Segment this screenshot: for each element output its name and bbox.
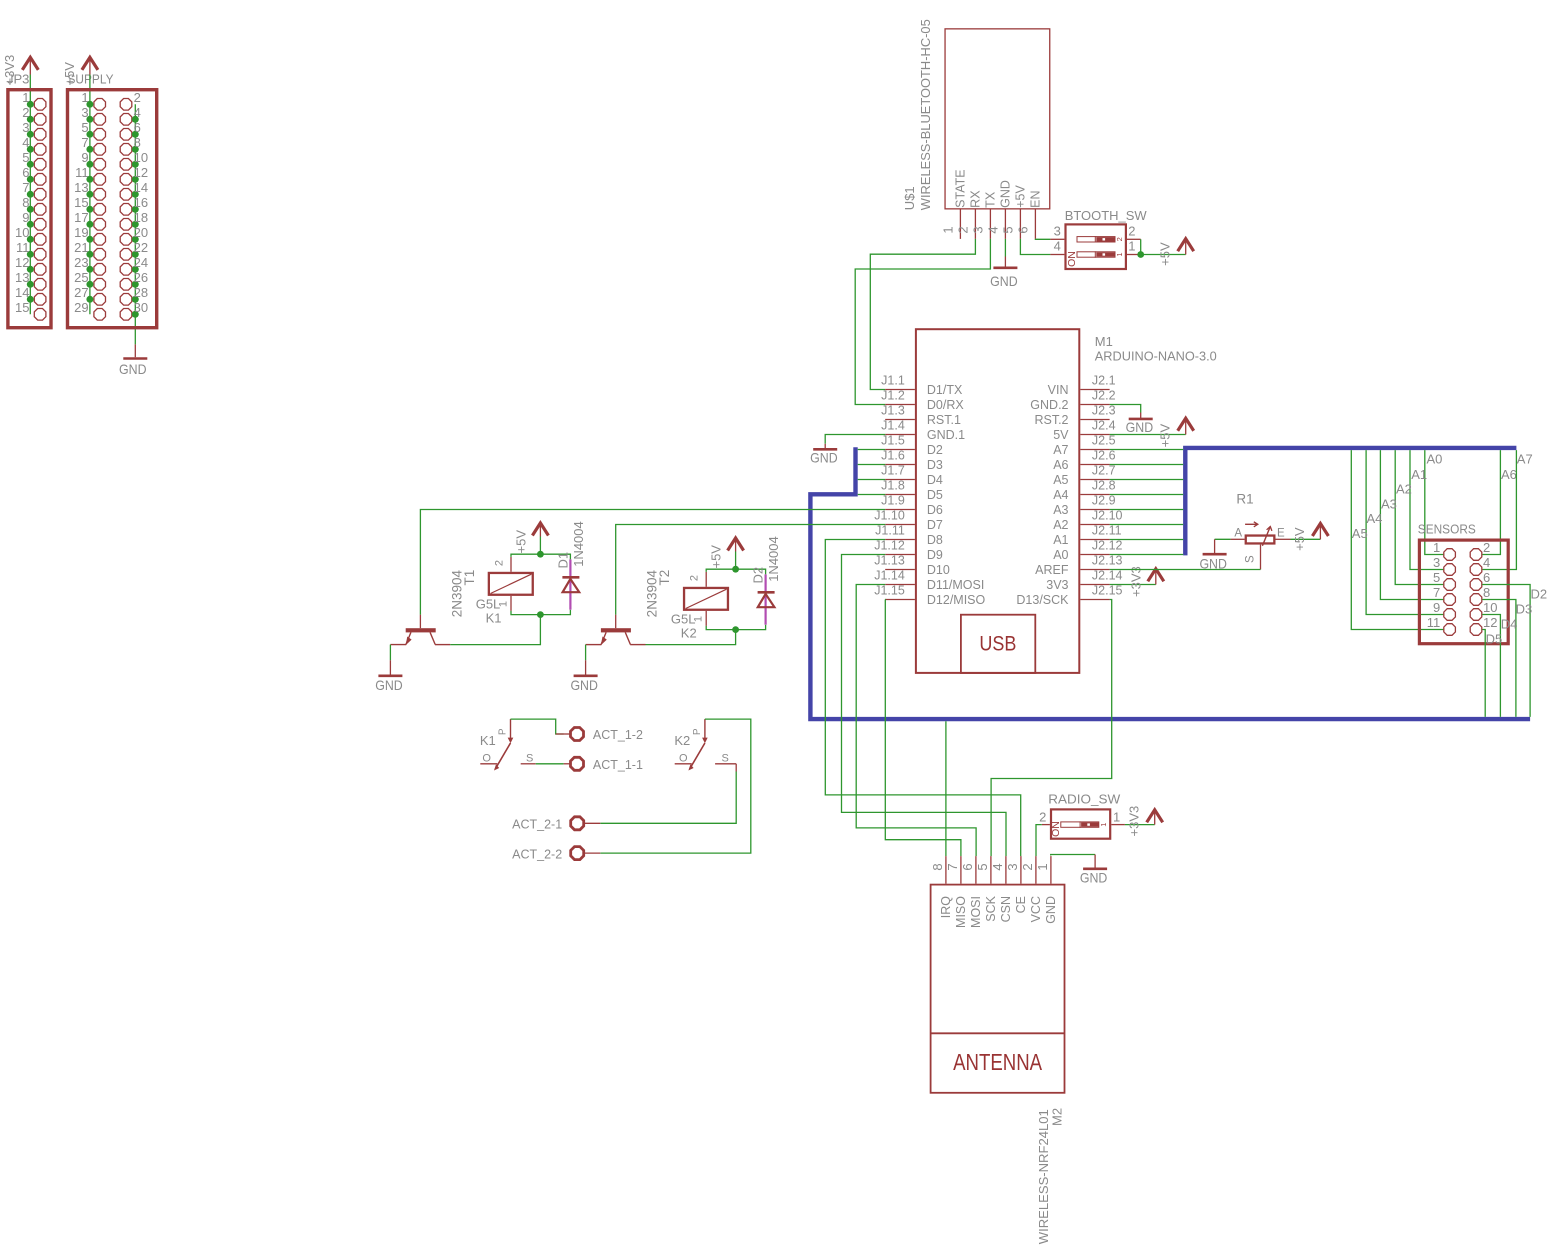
svg-text:K1: K1	[486, 610, 502, 625]
wire net A2: M1 J2.10 to bus	[1110, 524, 1184, 526]
wire net A7: M1 J2.5 to bus	[1110, 449, 1184, 451]
svg-text:K2: K2	[674, 733, 690, 748]
+3V3 supply arrow (M1 J2.14)	[1155, 571, 1157, 584]
svg-text:15: 15	[15, 300, 29, 315]
svg-text:RST.2: RST.2	[1034, 413, 1068, 427]
svg-text:11: 11	[75, 165, 89, 180]
wire net A1: bus to SENSORS.3	[1410, 450, 1443, 569]
svg-text:J2.12: J2.12	[1092, 539, 1123, 553]
svg-text:D4: D4	[1501, 616, 1518, 631]
junction K2 +5V	[732, 566, 739, 573]
svg-text:5V: 5V	[1053, 428, 1069, 442]
svg-text:+5V: +5V	[1158, 242, 1173, 266]
svg-text:12: 12	[1483, 615, 1497, 630]
wire net A6: M1 J2.6 to bus	[1110, 464, 1184, 466]
svg-text:GND: GND	[1126, 419, 1154, 435]
wire M1 GND.1 to ground	[825, 435, 885, 444]
svg-text:11: 11	[1427, 615, 1441, 630]
wire +5V to SUPPLY odd pins	[89, 75, 91, 315]
svg-text:15: 15	[74, 195, 88, 210]
K2 coil pin 1 stub	[705, 611, 707, 626]
svg-text:J2.6: J2.6	[1092, 449, 1116, 463]
T2 collector	[625, 632, 630, 644]
svg-text:GND: GND	[375, 677, 403, 693]
+5V supply arrow (M1 J2.4)	[1185, 421, 1187, 435]
wire net A1: M1 J2.11 to bus	[1110, 539, 1184, 541]
svg-text:5: 5	[975, 863, 990, 870]
svg-text:S: S	[722, 753, 729, 765]
svg-text:J1.7: J1.7	[881, 464, 905, 478]
U$1 pins 1-6 stubs	[959, 210, 961, 239]
svg-text:6: 6	[960, 863, 975, 870]
D2 body line	[764, 574, 766, 624]
svg-text:O: O	[482, 753, 491, 765]
svg-text:2: 2	[955, 226, 970, 233]
R1 pin S stub	[1260, 545, 1262, 570]
svg-text:VIN: VIN	[1048, 383, 1069, 397]
svg-text:6: 6	[1015, 226, 1030, 233]
wire net D7: M1 J1.10 to T2 base	[616, 525, 886, 615]
svg-text:1: 1	[1113, 809, 1120, 824]
svg-text:1: 1	[1128, 239, 1135, 254]
svg-text:3V3: 3V3	[1046, 578, 1068, 592]
svg-text:D1/TX: D1/TX	[927, 383, 963, 397]
svg-text:GND: GND	[119, 361, 147, 377]
wire net D3: M1 J1.6 to bus	[858, 464, 886, 466]
svg-text:+3V3: +3V3	[1127, 806, 1142, 837]
svg-text:JP3: JP3	[7, 72, 29, 87]
svg-text:D13/SCK: D13/SCK	[1016, 593, 1069, 607]
trimmer R1	[1110, 492, 1329, 572]
svg-text:WIRELESS-NRF24L01: WIRELESS-NRF24L01	[1036, 1109, 1051, 1244]
transistor T2 2N3904	[570, 525, 885, 693]
pads SUPPLY 1-30	[94, 99, 106, 111]
K2 coil body	[684, 588, 728, 610]
svg-text:J1.5: J1.5	[881, 434, 905, 448]
R1 pin A stub	[1231, 538, 1245, 540]
svg-text:1: 1	[940, 226, 955, 233]
+5V supply arrow (BTOOTH_SW)	[1185, 241, 1187, 255]
D1 body line	[569, 559, 571, 609]
connector SUPPLY header	[62, 57, 157, 377]
svg-text:A7: A7	[1053, 443, 1068, 457]
svg-text:J1.9: J1.9	[881, 494, 905, 508]
wire M1 3V3 to +3V3	[1110, 584, 1156, 586]
wire net CSN: M1 J1.12 (D9) to M2.4	[842, 555, 1007, 857]
diode D1 1N4004	[555, 521, 586, 609]
ground symbol GND (T1)	[389, 660, 391, 675]
svg-text:M1: M1	[1095, 334, 1113, 349]
wire net SCK: M1 J2.15 (D13) to M2.5	[991, 600, 1112, 857]
svg-text:1N4004: 1N4004	[766, 536, 781, 582]
svg-text:RST.1: RST.1	[927, 413, 961, 427]
svg-text:J2.3: J2.3	[1092, 404, 1116, 418]
svg-text:+5V: +5V	[709, 545, 724, 569]
wire K1.P to ACT_1-2	[511, 719, 564, 734]
wire net D5: M1 J1.8 to bus	[858, 494, 886, 496]
wire net A2: bus to SENSORS.5	[1395, 450, 1443, 584]
RADIO_SW body	[1051, 809, 1110, 838]
K1 S terminal	[521, 763, 536, 765]
T1 base bar	[406, 628, 436, 632]
svg-text:13: 13	[74, 180, 88, 195]
svg-text:8: 8	[134, 135, 141, 150]
svg-text:J2.7: J2.7	[1092, 464, 1116, 478]
wire net A0: bus to SENSORS.1	[1425, 450, 1444, 554]
svg-text:A4: A4	[1367, 511, 1383, 526]
K1 O terminal	[480, 763, 497, 765]
svg-text:1N4004: 1N4004	[571, 521, 586, 567]
svg-text:D3: D3	[927, 458, 943, 472]
svg-text:RX: RX	[969, 190, 983, 208]
module M1 ARDUINO-NANO-3.0	[874, 329, 1217, 673]
svg-text:A5: A5	[1352, 526, 1368, 541]
svg-text:J1.13: J1.13	[874, 554, 905, 568]
wire M1 GND.2 to ground	[1110, 405, 1141, 413]
svg-text:ANTENNA: ANTENNA	[953, 1049, 1042, 1075]
wire net IRQ: bus to M2.8	[945, 721, 947, 856]
+3V3 supply arrow (RADIO_SW)	[1154, 812, 1156, 825]
svg-text:A2: A2	[1396, 482, 1412, 497]
K1 P terminal	[510, 719, 512, 738]
wire K2 coil bottom to junction	[706, 626, 735, 630]
svg-text:MOSI: MOSI	[969, 896, 983, 928]
wire K2.S to ACT_2-1	[600, 772, 736, 824]
svg-text:ACT_1-2: ACT_1-2	[593, 728, 643, 742]
svg-text:A1: A1	[1053, 533, 1068, 547]
svg-text:1: 1	[1433, 540, 1440, 555]
svg-text:2: 2	[1483, 540, 1490, 555]
wire net A3: M1 J2.9 to bus	[1110, 509, 1184, 511]
svg-text:D11/MOSI: D11/MOSI	[927, 578, 984, 592]
svg-text:S: S	[1245, 555, 1257, 563]
junction K1 coil bottom	[537, 611, 544, 618]
svg-text:+5V: +5V	[1158, 423, 1173, 447]
svg-text:J2.5: J2.5	[1092, 434, 1116, 448]
svg-text:+5V: +5V	[514, 530, 529, 554]
switch RADIO_SW	[1039, 791, 1125, 838]
svg-text:2: 2	[494, 560, 506, 566]
bus segment left (A-bus)	[810, 447, 1530, 719]
M1 body	[916, 329, 1079, 673]
wire K1.S to ACT_1-1	[536, 763, 564, 765]
svg-text:GND: GND	[1080, 870, 1108, 886]
svg-text:4: 4	[990, 863, 1005, 870]
svg-text:2: 2	[1128, 224, 1135, 239]
T2 base bar	[601, 628, 631, 632]
M1 left pin stubs J1.1-J1.15	[885, 389, 915, 391]
svg-text:3: 3	[1054, 224, 1061, 239]
svg-text:2: 2	[689, 575, 701, 581]
svg-text:1: 1	[22, 90, 29, 105]
svg-text:25: 25	[74, 270, 88, 285]
K2 moving contact	[690, 743, 705, 769]
svg-text:9: 9	[1433, 600, 1440, 615]
svg-text:18: 18	[134, 210, 148, 225]
svg-text:A1: A1	[1411, 467, 1427, 482]
svg-text:A3: A3	[1381, 496, 1397, 511]
svg-text:2: 2	[22, 105, 29, 120]
diode D2 1N4004	[751, 536, 782, 624]
svg-text:28: 28	[134, 285, 148, 300]
svg-text:J1.2: J1.2	[881, 389, 905, 403]
wire net A3: bus to SENSORS.7	[1380, 450, 1443, 599]
wire net MISO: M1 J1.15 (D12) to M2.7	[885, 600, 961, 857]
junction BTOOTH_SW +5V	[1137, 251, 1144, 258]
svg-text:GND: GND	[990, 273, 1018, 289]
svg-text:23: 23	[74, 255, 88, 270]
svg-text:27: 27	[74, 285, 88, 300]
svg-text:ARDUINO-NANO-3.0: ARDUINO-NANO-3.0	[1095, 348, 1217, 363]
svg-text:WIRELESS-BLUETOOTH-HC-05: WIRELESS-BLUETOOTH-HC-05	[918, 19, 933, 210]
relay coil K1 G5L	[476, 557, 533, 625]
ground symbol GND (R1)	[1214, 539, 1216, 554]
wire K1 coil bottom to junction	[511, 611, 540, 615]
ground symbol GND (SUPPLY)	[134, 344, 136, 357]
wire R1.A to ground	[1215, 538, 1231, 540]
ground symbol GND (T2)	[585, 660, 587, 675]
svg-text:SUPPLY: SUPPLY	[68, 72, 114, 87]
wire net EN: U$1.6 to BTOOTH_SW.3	[1035, 238, 1050, 240]
connector JP3 header	[2, 55, 51, 328]
svg-text:J2.9: J2.9	[1092, 494, 1116, 508]
wire net TX: U$1.3 to M1 J1.2 (D0/RX)	[855, 239, 990, 405]
svg-text:GND: GND	[810, 450, 838, 466]
ground symbol GND (M1 GND.1)	[824, 444, 826, 449]
svg-text:5: 5	[22, 150, 29, 165]
svg-text:TX: TX	[984, 191, 998, 208]
wire junction to +5V arrow (K1)	[539, 537, 541, 555]
svg-text:E: E	[1277, 528, 1285, 540]
svg-text:A5: A5	[1053, 473, 1068, 487]
svg-text:A6: A6	[1053, 458, 1068, 472]
svg-text:14: 14	[134, 180, 148, 195]
svg-text:A6: A6	[1501, 467, 1517, 482]
relay contact K2	[674, 719, 736, 771]
BTOOTH_SW pin stubs	[1050, 238, 1064, 240]
K2 S terminal	[715, 763, 736, 765]
relay coil K2 G5L	[671, 572, 728, 640]
svg-text:7: 7	[22, 180, 29, 195]
BTOOTH_SW element 4-1	[1077, 252, 1115, 257]
wire BTOOTH_SW.2 to BTOOTH_SW.1 net	[1140, 239, 1142, 254]
svg-text:9: 9	[81, 150, 88, 165]
T1 collector	[430, 632, 435, 644]
wire net D4: SENSORS.10 to bus	[1482, 615, 1500, 717]
svg-text:21: 21	[74, 240, 88, 255]
svg-text:IRQ: IRQ	[939, 896, 953, 919]
+5V supply arrow (K2)	[735, 541, 737, 552]
wire K2 coil top to +5V junction	[706, 569, 735, 572]
svg-text:+5V: +5V	[1014, 185, 1028, 208]
wire T2 emitter to ground	[585, 645, 587, 661]
D2 cathode bar	[758, 591, 775, 594]
svg-text:10: 10	[15, 225, 29, 240]
svg-text:D3: D3	[1516, 601, 1533, 616]
svg-text:GND.2: GND.2	[1030, 398, 1068, 412]
ground symbol GND (M2)	[1094, 855, 1096, 869]
wire K2.P to ACT_2-2	[600, 719, 751, 853]
bus segment right (A-bus)	[1185, 448, 1516, 556]
svg-text:22: 22	[134, 240, 148, 255]
svg-text:D5: D5	[927, 488, 943, 502]
svg-text:D12/MISO: D12/MISO	[927, 593, 986, 607]
K1 coil body	[489, 573, 533, 595]
node ACT_1-2	[556, 728, 643, 743]
svg-text:J1.8: J1.8	[881, 479, 905, 493]
wire net +5V: U$1.5 to BTOOTH_SW.4	[1020, 239, 1050, 255]
wire net A0: M1 J2.12 to bus	[1110, 554, 1184, 556]
svg-text:GND.1: GND.1	[927, 428, 965, 442]
svg-text:J1.4: J1.4	[881, 419, 905, 433]
wire junction to D1 anode	[540, 610, 570, 615]
RADIO_SW element 2-1	[1061, 822, 1099, 827]
svg-text:ON: ON	[1050, 821, 1062, 837]
svg-text:J2.11: J2.11	[1092, 524, 1122, 538]
node ACT_2-1	[512, 817, 600, 832]
wire +3V3 to JP3 pins	[29, 75, 31, 315]
svg-text:D1: D1	[555, 552, 570, 569]
M1 right pin stubs J2.1-J2.15	[1080, 389, 1109, 391]
wire junction to D1 cathode	[540, 554, 570, 559]
svg-text:11: 11	[16, 240, 30, 255]
K2 O terminal	[675, 763, 692, 765]
svg-text:J1.6: J1.6	[881, 449, 905, 463]
wire RADIO_SW.1 to +3V3	[1125, 824, 1155, 826]
wire net D2: M1 J1.5 to bus	[858, 449, 886, 451]
svg-text:16: 16	[134, 195, 148, 210]
K1 coil pin 2 stub	[510, 557, 512, 572]
U$1 body	[945, 29, 1050, 209]
node ACT_2-2	[512, 847, 600, 862]
svg-text:VCC: VCC	[1029, 896, 1043, 922]
pads SENSORS 1-12	[1444, 549, 1456, 561]
svg-text:D6: D6	[927, 503, 943, 517]
svg-text:9: 9	[22, 210, 29, 225]
wire junction to +5V arrow (K2)	[735, 552, 737, 570]
svg-text:13: 13	[15, 270, 29, 285]
wire T1 emitter to ground	[389, 645, 391, 661]
svg-text:A: A	[1234, 528, 1242, 540]
M2 pin stubs 8-1	[945, 856, 947, 884]
svg-text:2: 2	[1039, 809, 1046, 824]
svg-text:5: 5	[81, 120, 88, 135]
svg-text:2: 2	[1115, 237, 1124, 241]
svg-text:GND: GND	[570, 677, 598, 693]
+3V3 supply arrow (JP3)	[22, 57, 38, 70]
svg-text:D0/RX: D0/RX	[927, 398, 964, 412]
svg-text:A0: A0	[1427, 452, 1443, 467]
svg-text:29: 29	[74, 300, 88, 315]
BTOOTH_SW element 3-2	[1077, 237, 1115, 242]
svg-text:1: 1	[1035, 863, 1050, 870]
junction K2 coil bottom	[732, 626, 739, 633]
svg-text:J1.3: J1.3	[881, 404, 905, 418]
svg-text:+3V3: +3V3	[1128, 566, 1143, 597]
svg-text:ON: ON	[1066, 251, 1078, 267]
svg-text:J2.13: J2.13	[1092, 554, 1123, 568]
svg-text:5: 5	[1433, 570, 1440, 585]
svg-text:4: 4	[1483, 555, 1490, 570]
svg-text:GND: GND	[1044, 896, 1058, 924]
svg-text:4: 4	[134, 105, 141, 120]
svg-text:EN: EN	[1029, 190, 1043, 207]
svg-text:A7: A7	[1517, 452, 1533, 467]
svg-text:P: P	[497, 728, 508, 735]
wire net A4: bus to SENSORS.9	[1366, 450, 1443, 614]
svg-text:R1: R1	[1236, 492, 1253, 507]
svg-text:12: 12	[134, 165, 148, 180]
svg-text:CE: CE	[1014, 896, 1028, 913]
wire SUPPLY even pins to GND	[134, 104, 136, 344]
T1 emitter	[406, 632, 411, 644]
node ACT_1-1	[564, 757, 643, 772]
svg-text:ACT_2-1: ACT_2-1	[512, 818, 562, 832]
svg-text:24: 24	[134, 255, 148, 270]
connector SUPPLY body	[68, 90, 157, 328]
svg-text:1: 1	[498, 601, 510, 607]
svg-text:3: 3	[1005, 863, 1020, 870]
svg-text:2: 2	[1020, 863, 1035, 870]
K2 coil pin 2 stub	[705, 572, 707, 587]
BTOOTH_SW body	[1066, 224, 1126, 269]
svg-text:T1: T1	[462, 570, 477, 586]
svg-text:T2: T2	[657, 570, 672, 586]
M2 body	[931, 885, 1065, 1093]
connector JP3 body	[8, 90, 51, 328]
svg-text:1: 1	[693, 616, 705, 622]
svg-text:P: P	[692, 728, 703, 735]
wire T1 collector to K1 coil	[450, 615, 540, 645]
junction K1 +5V	[537, 551, 544, 558]
svg-text:S: S	[526, 753, 533, 765]
svg-text:J1.10: J1.10	[874, 509, 905, 523]
svg-text:AREF: AREF	[1035, 563, 1069, 577]
svg-text:1: 1	[1115, 252, 1124, 256]
svg-text:4: 4	[985, 226, 1000, 233]
svg-text:K1: K1	[480, 733, 496, 748]
svg-text:26: 26	[134, 270, 148, 285]
wire net D2: SENSORS.6 to bus	[1482, 585, 1530, 717]
svg-text:30: 30	[134, 300, 148, 315]
wire net A6: bus to SENSORS.2	[1482, 450, 1500, 554]
wire net D5: SENSORS.12 to bus	[1482, 630, 1485, 717]
switch BTOOTH_SW	[1050, 208, 1147, 269]
svg-text:10: 10	[134, 150, 148, 165]
T1 base stub	[419, 615, 421, 629]
wire BTOOTH_SW.1 to +5V	[1141, 254, 1186, 256]
svg-text:J2.4: J2.4	[1092, 419, 1116, 433]
wire junction to D2 anode	[736, 625, 766, 630]
wire junction to D2 cathode	[736, 569, 766, 574]
wire K1 coil top to +5V junction	[511, 554, 540, 557]
svg-text:D2: D2	[751, 567, 766, 584]
svg-text:MISO: MISO	[954, 896, 968, 928]
svg-text:J2.1: J2.1	[1092, 374, 1116, 388]
svg-text:J2.8: J2.8	[1092, 479, 1116, 493]
wire net D4: M1 J1.7 to bus	[858, 479, 886, 481]
svg-text:K2: K2	[681, 625, 697, 640]
svg-text:8: 8	[930, 863, 945, 870]
svg-text:GND: GND	[999, 180, 1013, 208]
svg-text:A4: A4	[1053, 488, 1068, 502]
svg-text:D8: D8	[927, 533, 943, 547]
svg-text:J1.1: J1.1	[881, 374, 905, 388]
wire net A4: M1 J2.8 to bus	[1110, 494, 1184, 496]
svg-text:J1.11: J1.11	[875, 524, 905, 538]
K1 coil pin 1 stub	[510, 596, 512, 611]
svg-text:7: 7	[1433, 585, 1440, 600]
